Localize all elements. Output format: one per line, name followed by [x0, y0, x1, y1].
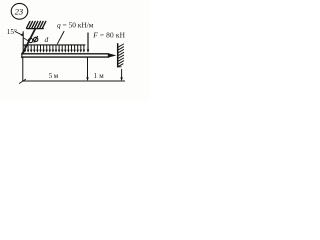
svg-text:F = 80 кН: F = 80 кН [92, 30, 125, 39]
rod (tie) from ceiling to beam left end [22, 29, 35, 54]
dimension line [23, 80, 125, 82]
wall support line [117, 44, 119, 67]
svg-text:1 м: 1 м [94, 72, 105, 80]
angle leader line [15, 32, 22, 36]
wall bottom tick [118, 66, 122, 68]
beam pointed right tip [108, 53, 117, 58]
distributed load arrows [25, 45, 84, 51]
rod diameter symbol circle 2 [34, 37, 38, 41]
problem number badge circle 23 [11, 3, 28, 19]
svg-text:23: 23 [15, 7, 24, 17]
force F arrowhead [87, 49, 90, 53]
beam left end cap [21, 53, 23, 58]
svg-text:5 м: 5 м [49, 72, 59, 80]
dimension middle arrowhead [86, 77, 89, 81]
distributed load top line [24, 44, 85, 46]
beam bottom line [22, 56, 109, 58]
beam top line [22, 53, 109, 55]
svg-text:q = 50 кН/м: q = 50 кН/м [57, 21, 94, 30]
ceiling support line [27, 28, 43, 30]
dimension right arrowhead [120, 77, 123, 81]
dimension left corner serif [19, 79, 25, 83]
distributed load arrowheads [24, 50, 85, 53]
dimension extension line middle [87, 58, 89, 80]
wall hatching [118, 44, 124, 67]
svg-text:d: d [45, 35, 49, 44]
ceiling hatching [27, 21, 46, 28]
rod diameter symbol circle 1 [28, 38, 32, 42]
dimension extension line right [121, 69, 123, 79]
angle arc [23, 38, 29, 41]
dimension extension line left [22, 58, 24, 81]
force F arrow line [87, 33, 89, 50]
angle leader arrowhead [21, 33, 24, 36]
rod diameter symbol slash 2 [34, 37, 38, 43]
distributed load leader line [57, 31, 64, 43]
vertical reference line at beam left end [22, 32, 24, 54]
